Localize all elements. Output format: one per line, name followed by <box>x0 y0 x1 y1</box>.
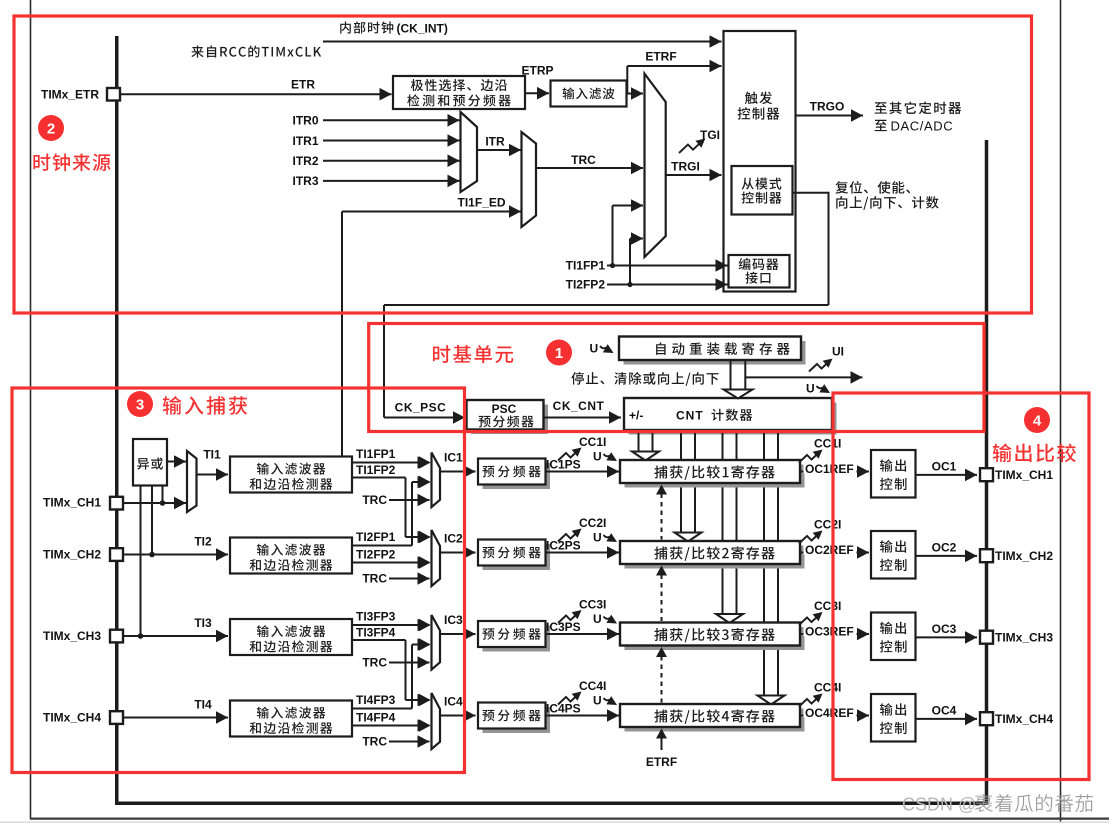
flag CC1I capture interrupt left <box>558 444 584 461</box>
label TI3FP4 <box>356 626 396 640</box>
label IC1 <box>444 451 463 465</box>
label OC1REF <box>804 461 857 476</box>
svg-text:IC3PS: IC3PS <box>546 620 581 634</box>
svg-text:TRC: TRC <box>362 735 387 749</box>
label TIMx_CH4 right <box>995 712 1053 726</box>
label TI4FP4 <box>356 711 396 725</box>
wire OC1 <box>916 469 978 482</box>
label 来自RCC的TIMxCLK <box>191 46 321 58</box>
register capture/compare 4 捕获/比较4寄存器 <box>620 704 805 732</box>
wire TIMx_CH2 pad to filter <box>124 548 229 561</box>
svg-text:TRGI: TRGI <box>671 160 700 174</box>
label to DAC/ADC 至 DAC/ADC <box>875 119 954 134</box>
wire left bus (vertical) <box>115 36 119 805</box>
svg-text:ETRF: ETRF <box>646 755 677 769</box>
label TI2 <box>194 535 212 549</box>
label TI2FP1 <box>356 530 396 544</box>
wire TIMx_CH3 pad to filter <box>124 630 229 643</box>
annotation label 时钟来源 <box>33 153 110 171</box>
flag U update event at CNT <box>806 382 832 398</box>
frame left thin border line <box>30 0 32 819</box>
label IC2PS <box>546 539 581 553</box>
wire TI1 to input filter <box>197 468 229 481</box>
svg-text:TIMx_CH4: TIMx_CH4 <box>995 712 1053 726</box>
arrowhead into IC3 mux <box>419 619 431 632</box>
svg-text:TRC: TRC <box>362 493 387 507</box>
label IC2 <box>444 532 463 546</box>
label IC4PS <box>546 702 581 716</box>
label TRC channel 1 <box>362 493 387 507</box>
svg-text:U: U <box>806 382 815 396</box>
label CC3I left <box>579 598 606 612</box>
label TI1 <box>203 448 221 462</box>
svg-text:OC2: OC2 <box>932 541 957 555</box>
svg-text:TRC: TRC <box>362 572 387 586</box>
svg-text:IC2PS: IC2PS <box>546 539 581 553</box>
label TI4FP3 <box>356 693 396 707</box>
mux IC1 input selector <box>432 453 441 508</box>
svg-text:IC1: IC1 <box>444 451 463 465</box>
label OC2REF <box>804 542 857 557</box>
label UI <box>832 345 844 359</box>
node TIMx_CH2 pad <box>110 548 123 561</box>
wire filter to trigger mux <box>627 87 644 100</box>
wire OC1REF <box>800 465 869 478</box>
annotation number circle 2 <box>38 115 64 141</box>
svg-text:TIMx_CH4: TIMx_CH4 <box>43 711 101 725</box>
wire TI2FP2 branch to trigger mux <box>630 232 643 284</box>
svg-text:1: 1 <box>555 345 563 362</box>
label CC4I right <box>814 681 841 695</box>
svg-text:OC1: OC1 <box>932 460 957 474</box>
label ITR1 <box>292 134 318 148</box>
mux IC4 input selector <box>432 693 441 749</box>
label CC1I left <box>579 435 606 449</box>
svg-text:TI2FP1: TI2FP1 <box>356 530 396 544</box>
register PSC prescaler 预分频器 <box>467 400 549 434</box>
annotation number circle 3 <box>127 391 153 417</box>
flag CC3I capture interrupt left <box>558 606 584 623</box>
wire XOR input from CH3 <box>138 486 144 639</box>
wire cross-input from below <box>412 638 430 708</box>
svg-text:CC4I: CC4I <box>814 681 841 695</box>
wire OC2REF <box>800 546 869 559</box>
wire TI1FP1 to encoder <box>607 259 728 272</box>
flag CC2I interrupt right <box>799 527 825 544</box>
svg-text:U: U <box>593 450 602 464</box>
wire TRC stub channel 1 <box>389 494 430 507</box>
wire ITR3 <box>323 175 460 188</box>
annotation label 输入捕获 <box>163 396 247 415</box>
wire OC3 <box>916 631 978 644</box>
svg-text:PSC: PSC <box>492 402 517 416</box>
svg-text:TI2FP2: TI2FP2 <box>566 278 606 292</box>
svg-text:IC1PS: IC1PS <box>546 458 581 472</box>
wire OC2 <box>916 550 978 563</box>
svg-text:TRC: TRC <box>362 656 387 670</box>
label ETR <box>291 78 315 92</box>
svg-text:ITR0: ITR0 <box>292 114 318 128</box>
svg-text:OC4: OC4 <box>932 704 957 718</box>
label OC1 <box>932 460 957 474</box>
wire OC3REF <box>800 628 869 641</box>
wire cross-input from above into mux <box>406 531 430 544</box>
svg-text:CNT: CNT <box>676 409 704 423</box>
label OC4 <box>932 704 957 718</box>
svg-text:IC3: IC3 <box>444 613 463 627</box>
svg-text:UI: UI <box>832 345 844 359</box>
wire TRC stub channel 4 <box>389 735 430 748</box>
arrow dashed capture transfer row 4 to 3 <box>656 647 667 703</box>
wire TI1FP1 branch to trigger mux <box>613 199 644 265</box>
svg-text:DAC/ADC: DAC/ADC <box>891 119 954 134</box>
watermark CSDN @裹着瓜的番茄 <box>902 794 1093 814</box>
register ARR auto-reload 自动重装载寄存器 <box>619 337 806 365</box>
wire TRC stub channel 3 <box>389 656 430 669</box>
wire right bus (vertical) <box>985 140 989 803</box>
svg-text:(CK_INT): (CK_INT) <box>397 22 448 36</box>
label internal clock 内部时钟 <box>340 21 448 35</box>
svg-text:OC4REF: OC4REF <box>805 706 854 720</box>
arrow dashed capture transfer row 3 to 2 <box>656 566 667 622</box>
arrow hollow ARR to CNT <box>724 360 753 399</box>
box input filter & edge detector channel 4 输入滤波器和边沿检测器 <box>230 701 352 737</box>
svg-text:CC1I: CC1I <box>814 437 841 451</box>
flag U event channel 3 <box>593 612 619 628</box>
label CK_PSC <box>395 401 447 415</box>
arrowhead into IC2 mux <box>419 556 431 569</box>
svg-text:OC2REF: OC2REF <box>805 543 854 557</box>
wire IC3 <box>440 628 476 641</box>
label TIMx_CH4 left <box>43 711 101 725</box>
wire IC2PS <box>546 546 620 559</box>
svg-text:OC3: OC3 <box>932 622 957 636</box>
label TGI <box>700 128 720 142</box>
svg-text:TGI: TGI <box>700 128 720 142</box>
box prescaler channel 4 预分频器 <box>478 703 550 734</box>
wire IC3PS <box>546 628 620 641</box>
wire TIMx_CH4 pad to filter <box>124 711 229 724</box>
svg-text:TI4FP3: TI4FP3 <box>356 693 396 707</box>
label TRC channel 2 <box>362 572 387 586</box>
wire TI1F_ED <box>342 205 521 456</box>
svg-text:ETRP: ETRP <box>521 64 553 78</box>
box output control channel 4 输出控制 <box>871 694 916 742</box>
label TIMx_CH2 right <box>995 549 1053 563</box>
label TI1F_ED <box>457 196 505 210</box>
wire ITR0 <box>323 114 460 127</box>
svg-text:TI1FP2: TI1FP2 <box>356 463 396 477</box>
wire slave mode to CK_PSC <box>384 192 829 424</box>
svg-text:U: U <box>593 531 602 545</box>
box input filter & edge detector channel 3 输入滤波器和边沿检测器 <box>230 619 352 655</box>
flag TGI interrupt <box>679 135 708 153</box>
label TRGO <box>810 100 845 114</box>
label ETRF <box>645 50 676 64</box>
wire ITR <box>477 144 521 157</box>
label to other timers 至其它定时器 <box>875 101 962 114</box>
wire ETR <box>121 88 392 101</box>
svg-text:ITR: ITR <box>485 135 505 149</box>
arrowhead into IC1 mux <box>419 456 431 469</box>
mux IC2 input selector <box>432 530 441 586</box>
label OC4REF <box>804 705 857 720</box>
svg-text:TRC: TRC <box>571 153 596 167</box>
register capture/compare 1 捕获/比较1寄存器 <box>620 460 805 488</box>
wire IC4PS <box>546 709 620 722</box>
label IC4 <box>444 695 463 709</box>
label TI1FP1 <box>356 447 396 461</box>
svg-text:TI2FP2: TI2FP2 <box>356 548 396 562</box>
svg-text:OC3REF: OC3REF <box>805 625 854 639</box>
label TIMx_CH3 left <box>43 629 101 643</box>
svg-text:TIMx_CH2: TIMx_CH2 <box>995 549 1053 563</box>
svg-text:TI3FP4: TI3FP4 <box>356 626 396 640</box>
svg-text:TI3: TI3 <box>194 616 212 630</box>
label TI4 <box>194 698 212 712</box>
box trigger controller 触发控制器 <box>724 31 796 292</box>
label stop clear up/down 停止、清除或向上/向下 <box>571 372 718 386</box>
wire TI3FP3 <box>352 619 430 632</box>
svg-text:CC2I: CC2I <box>814 518 841 532</box>
wire internal clock CK_INT <box>323 35 722 48</box>
wire update event out <box>745 371 862 384</box>
box XOR 异或 <box>133 439 167 486</box>
label TIMx_CH3 right <box>995 631 1053 645</box>
label TRGI <box>671 160 700 174</box>
svg-text:ETR: ETR <box>291 78 315 92</box>
node TIMx_CH1 pad <box>110 497 123 510</box>
mux TI1 edge selector <box>187 451 197 512</box>
label TIMx_CH1 left <box>43 496 101 510</box>
label TI1FP1 <box>566 259 606 273</box>
label TIMx_CH2 left <box>43 548 101 562</box>
label ITR0 <box>292 114 318 128</box>
flag CC2I capture interrupt left <box>558 525 584 542</box>
label TIMx_ETR <box>41 88 99 102</box>
wire TI2FP1 up-cross <box>352 545 412 547</box>
arrow ETRF into capture/compare 4 <box>656 729 667 751</box>
node TIMx_CH3 right pad <box>980 631 993 644</box>
svg-text:TRGO: TRGO <box>810 100 845 114</box>
label ITR <box>485 135 505 149</box>
box prescaler channel 1 预分频器 <box>478 459 550 490</box>
svg-text:2: 2 <box>47 121 55 138</box>
svg-text:IC4: IC4 <box>444 695 463 709</box>
mux TRC selector <box>522 132 537 227</box>
label ITR3 <box>292 174 318 188</box>
register CNT counter 计数器 <box>624 398 837 435</box>
box encoder interface 编码器接口 <box>729 255 790 288</box>
annotation red box clock sources 时钟来源 <box>14 16 1032 313</box>
box slave mode controller 从模式控制器 <box>732 166 793 215</box>
box prescaler channel 2 预分频器 <box>478 540 550 571</box>
wire IC1PS <box>546 465 620 478</box>
register capture/compare 3 捕获/比较3寄存器 <box>620 623 805 651</box>
label TRC channel 4 <box>362 735 387 749</box>
svg-text:TI1: TI1 <box>203 448 221 462</box>
label CC2I right <box>814 518 841 532</box>
wire cross-input from above into mux <box>406 694 430 707</box>
label ETRP <box>521 64 553 78</box>
label TI3FP3 <box>356 610 396 624</box>
label IC3 <box>444 613 463 627</box>
label TI3 <box>194 616 212 630</box>
svg-text:3: 3 <box>136 397 144 414</box>
box input filter 输入滤波 <box>551 81 627 107</box>
wire TI1FP2 down-cross <box>352 478 406 538</box>
svg-text:TIMx_ETR: TIMx_ETR <box>41 88 99 102</box>
annotation label 输出比较 <box>993 443 1076 462</box>
wire TIMx_CH1 pad to TI1 mux <box>124 497 187 510</box>
node TIMx_CH3 pad <box>110 630 123 643</box>
node TIMx_CH4 pad <box>110 711 123 724</box>
svg-text:TIMx_CH1: TIMx_CH1 <box>995 468 1053 482</box>
label reset enable 复位、使能、 <box>835 181 910 194</box>
arrowhead into IC1 mux <box>419 476 431 489</box>
svg-text:ETRF: ETRF <box>645 50 676 64</box>
wire TI4FP3 up-cross <box>352 708 412 710</box>
wire TI4FP4 <box>352 719 430 732</box>
svg-text:4: 4 <box>1033 413 1042 430</box>
svg-text:TI4FP4: TI4FP4 <box>356 711 396 725</box>
flag U event channel 2 <box>593 531 619 547</box>
flag U event channel 4 <box>593 694 619 710</box>
wire TRGI <box>666 169 722 182</box>
svg-text:IC2: IC2 <box>444 532 463 546</box>
box prescaler channel 3 预分频器 <box>478 621 550 652</box>
flag U event channel 1 <box>593 450 619 466</box>
svg-text:ITR3: ITR3 <box>292 174 318 188</box>
label CK_CNT <box>553 399 605 413</box>
node TIMx_CH4 right pad <box>980 712 993 725</box>
wire IC1 <box>440 465 476 478</box>
arrow dashed capture transfer row 2 to 1 <box>656 485 667 540</box>
wire XOR output to TI1 mux <box>167 455 186 468</box>
mux ITR selector <box>461 112 478 192</box>
frame right thin border line <box>1060 0 1062 822</box>
svg-text:CC1I: CC1I <box>579 435 606 449</box>
annotation red box input capture 输入捕获 <box>12 388 465 773</box>
svg-text:ITR2: ITR2 <box>292 154 318 168</box>
mux trigger input selector <box>645 74 666 257</box>
svg-text:TIMx_CH3: TIMx_CH3 <box>995 631 1053 645</box>
wire ETRF up-over <box>627 60 721 94</box>
svg-text:TI3FP3: TI3FP3 <box>356 610 396 624</box>
wire bottom bus (horizontal) <box>115 801 988 805</box>
label OC2 <box>932 541 957 555</box>
svg-text:CSDN @: CSDN @ <box>902 795 976 815</box>
svg-text:TIMx_CH2: TIMx_CH2 <box>43 548 101 562</box>
annotation number circle 4 <box>1024 407 1050 433</box>
node TIMx_ETR pad <box>107 88 120 101</box>
label TIMx_CH1 right <box>995 468 1053 482</box>
svg-text:CC2I: CC2I <box>579 516 606 530</box>
wire ETRP <box>525 87 549 100</box>
svg-text:TIMx_CH1: TIMx_CH1 <box>43 496 101 510</box>
svg-text:TI4: TI4 <box>194 698 212 712</box>
wire cross-input from below <box>412 476 430 546</box>
arrowhead into IC4 mux <box>419 719 431 732</box>
svg-text:U: U <box>593 694 602 708</box>
annotation red box output compare 输出比较 <box>833 393 1089 780</box>
svg-text:U: U <box>593 612 602 626</box>
frame bottom light line <box>0 821 1109 823</box>
svg-text:TI2: TI2 <box>194 535 212 549</box>
annotation label 时基单元 <box>433 345 513 363</box>
node TIMx_CH2 right pad <box>980 549 993 562</box>
box input filter & edge detector channel 1 输入滤波器和边沿检测器 <box>230 457 352 493</box>
wire TRGO <box>796 109 864 122</box>
svg-text:OC1REF: OC1REF <box>805 462 854 476</box>
svg-text:CC3I: CC3I <box>579 598 606 612</box>
label TRC channel 3 <box>362 656 387 670</box>
label TI1FP2 <box>356 463 396 477</box>
wire XOR input from CH2 <box>149 486 155 558</box>
flag CC3I interrupt right <box>799 608 825 625</box>
label TI2FP2 <box>566 278 606 292</box>
svg-text:CK_PSC: CK_PSC <box>395 401 447 415</box>
label CC3I right <box>814 599 841 613</box>
label OC3REF <box>804 624 857 639</box>
arrowhead into IC4 mux <box>419 694 431 707</box>
flag CC1I interrupt right <box>799 446 825 463</box>
wire XOR input from CH1 <box>160 486 166 506</box>
svg-text:+/-: +/- <box>629 409 643 423</box>
label CC2I left <box>579 516 606 530</box>
wire IC2 <box>440 546 476 559</box>
label IC1PS <box>546 458 581 472</box>
box output control channel 2 输出控制 <box>871 531 916 579</box>
svg-text:TI1F_ED: TI1F_ED <box>457 196 505 210</box>
svg-text:TI1FP1: TI1FP1 <box>566 259 606 273</box>
svg-text:IC4PS: IC4PS <box>546 702 581 716</box>
mux IC3 input selector <box>432 615 441 670</box>
wire ITR2 <box>323 154 460 167</box>
label ETRF bottom <box>646 755 677 769</box>
arrows hollow CNT to capture/compare registers <box>632 430 785 705</box>
arrowhead into IC2 mux <box>419 531 431 544</box>
flag U update event at ARR <box>590 342 616 358</box>
wire TI2FP2 <box>352 556 430 569</box>
label ITR2 <box>292 154 318 168</box>
label OC3 <box>932 622 957 636</box>
box output control channel 3 输出控制 <box>871 613 916 661</box>
flag CC4I interrupt right <box>799 690 825 707</box>
wire TRC <box>536 162 643 175</box>
label TI2FP2 <box>356 548 396 562</box>
label CC4I left <box>579 679 606 693</box>
wire OC4REF <box>800 709 869 722</box>
wire TI1FP1 <box>352 456 430 469</box>
svg-text:CC3I: CC3I <box>814 599 841 613</box>
wire TI3FP4 down-cross <box>352 640 406 700</box>
register capture/compare 2 捕获/比较2寄存器 <box>620 541 805 569</box>
box output control channel 1 输出控制 <box>871 450 916 498</box>
arrowhead into IC3 mux <box>419 638 431 651</box>
svg-text:CK_CNT: CK_CNT <box>553 399 605 413</box>
frame bottom dark line <box>30 817 1109 819</box>
label TRC <box>571 153 596 167</box>
node TIMx_CH1 right pad <box>980 468 993 481</box>
flag UI update interrupt <box>809 355 835 372</box>
svg-text:TI1FP1: TI1FP1 <box>356 447 396 461</box>
annotation number circle 1 <box>546 340 572 366</box>
wire TI2FP2 to encoder <box>607 278 728 291</box>
svg-text:CC4I: CC4I <box>579 679 606 693</box>
svg-text:TIMx_CH3: TIMx_CH3 <box>43 629 101 643</box>
wire CK_CNT <box>544 411 622 424</box>
